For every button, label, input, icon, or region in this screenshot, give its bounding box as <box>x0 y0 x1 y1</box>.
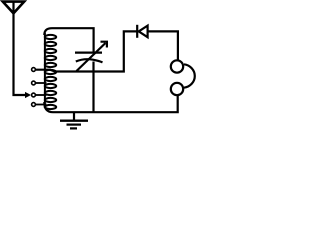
diode D1 triangle <box>139 26 148 38</box>
wire earphones to ground bus and coil bottom <box>44 96 177 113</box>
diode D1 cathode bar <box>136 25 138 38</box>
wire tap1 to diode riser <box>36 31 137 71</box>
ground stub <box>73 112 75 121</box>
variable capacitor C1 top plate <box>75 51 102 53</box>
capacitor C1 arrowhead <box>101 42 107 48</box>
ground bar 3 <box>70 127 77 129</box>
ground bar 1 <box>60 119 88 121</box>
tap lead wire 2 <box>36 82 47 84</box>
tap terminal circle 3 <box>32 93 36 97</box>
earphone bottom <box>171 83 183 95</box>
wire coil top to capacitor C1 <box>44 28 93 52</box>
tap lead wire 4 <box>36 104 47 106</box>
tap terminal circle 2 <box>32 81 36 85</box>
tap terminal circle 1 <box>32 68 36 72</box>
capacitor C1 bottom lead <box>92 62 94 113</box>
ground bar 2 <box>67 123 82 125</box>
tap terminal circle 4 <box>32 103 36 107</box>
variable capacitor C1 bottom curved plate <box>76 59 103 62</box>
tap selector arrowhead <box>25 92 31 98</box>
antenna A1 triangle <box>3 2 24 14</box>
antenna lead wire down to tap arrow <box>14 2 29 96</box>
tap lead wire 3 <box>36 94 47 96</box>
capacitor C1 variable arrow shaft <box>77 43 106 71</box>
earphone top <box>171 60 183 72</box>
inductor L1 tuning coil <box>45 33 56 109</box>
headband arc <box>184 64 195 87</box>
wire diode to earphones <box>148 31 178 60</box>
